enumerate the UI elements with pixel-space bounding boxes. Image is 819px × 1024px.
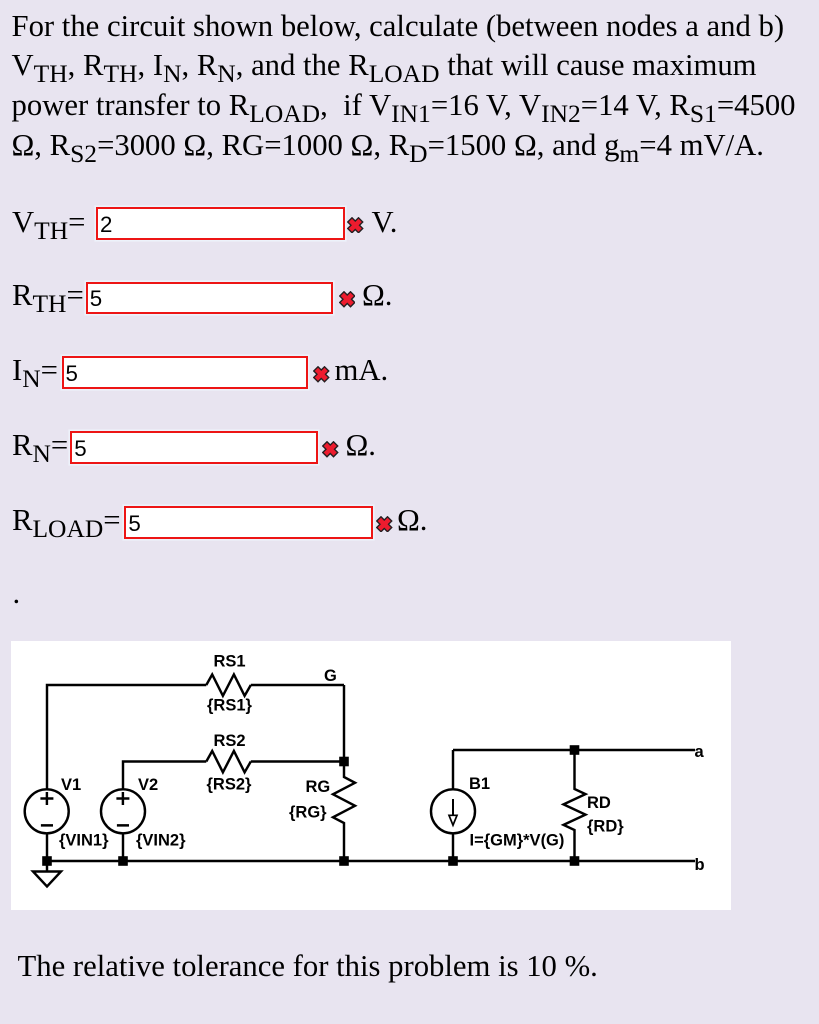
svg-text:B1: B1 xyxy=(469,775,490,793)
wire V1 top to RS1 left lead xyxy=(47,685,206,789)
svg-text:{RG}: {RG} xyxy=(289,804,327,822)
voltage source V2 xyxy=(101,789,145,833)
wire V2 bottom xyxy=(122,833,124,861)
wire B1 bottom xyxy=(452,833,454,861)
resistor RG xyxy=(333,762,355,862)
answer row RLOAD xyxy=(12,503,121,538)
junction RD-bottom xyxy=(570,856,580,866)
answer row VTH xyxy=(12,205,85,240)
voltage source V1 xyxy=(25,789,69,833)
wire top rail to node a xyxy=(453,749,695,751)
wire V1 bottom xyxy=(46,833,48,861)
svg-text:{RS2}: {RS2} xyxy=(207,776,253,794)
question paragraph xyxy=(12,7,796,166)
svg-text:RS1: RS1 xyxy=(213,653,245,671)
wire V2 top to RS2 left lead xyxy=(123,762,206,790)
circuit schematic image xyxy=(11,641,731,910)
svg-text:b: b xyxy=(695,856,705,874)
junction B1-bottom xyxy=(448,856,458,866)
tolerance note xyxy=(18,949,598,984)
svg-text:V2: V2 xyxy=(138,776,158,794)
svg-text:a: a xyxy=(695,743,705,761)
wire RS1 right lead to node G corner xyxy=(251,684,344,686)
wire node G vertical down to RS2 junction xyxy=(343,685,345,762)
ground xyxy=(33,861,61,887)
svg-text:RS2: RS2 xyxy=(213,732,245,750)
junction RG-bottom xyxy=(339,856,349,866)
wire bottom rail a-b xyxy=(47,860,695,862)
svg-text:RG: RG xyxy=(306,778,331,796)
resistor RD xyxy=(564,750,586,861)
resistor RS2 xyxy=(206,751,250,772)
svg-text:I={GM}*V(G): I={GM}*V(G) xyxy=(470,832,565,850)
answer row RN xyxy=(12,428,68,463)
svg-text:RD: RD xyxy=(587,794,611,812)
junction V1-bottom xyxy=(42,856,52,866)
svg-text:{RD}: {RD} xyxy=(587,818,624,836)
svg-text:{VIN1}: {VIN1} xyxy=(59,832,109,850)
junction RD-top xyxy=(570,745,580,755)
resistor RS1 xyxy=(206,675,250,696)
junction V2-bottom xyxy=(118,856,128,866)
svg-text:V1: V1 xyxy=(61,776,81,794)
current source B1 xyxy=(452,750,454,789)
wire RS2 right lead to junction xyxy=(251,760,344,762)
svg-text:{VIN2}: {VIN2} xyxy=(136,832,186,850)
svg-text:G: G xyxy=(324,667,337,685)
junction RS2-RG node xyxy=(339,757,349,767)
answer row RTH xyxy=(12,278,84,313)
lone period xyxy=(13,576,21,611)
svg-text:{RS1}: {RS1} xyxy=(207,697,253,715)
answer row IN xyxy=(12,353,58,388)
